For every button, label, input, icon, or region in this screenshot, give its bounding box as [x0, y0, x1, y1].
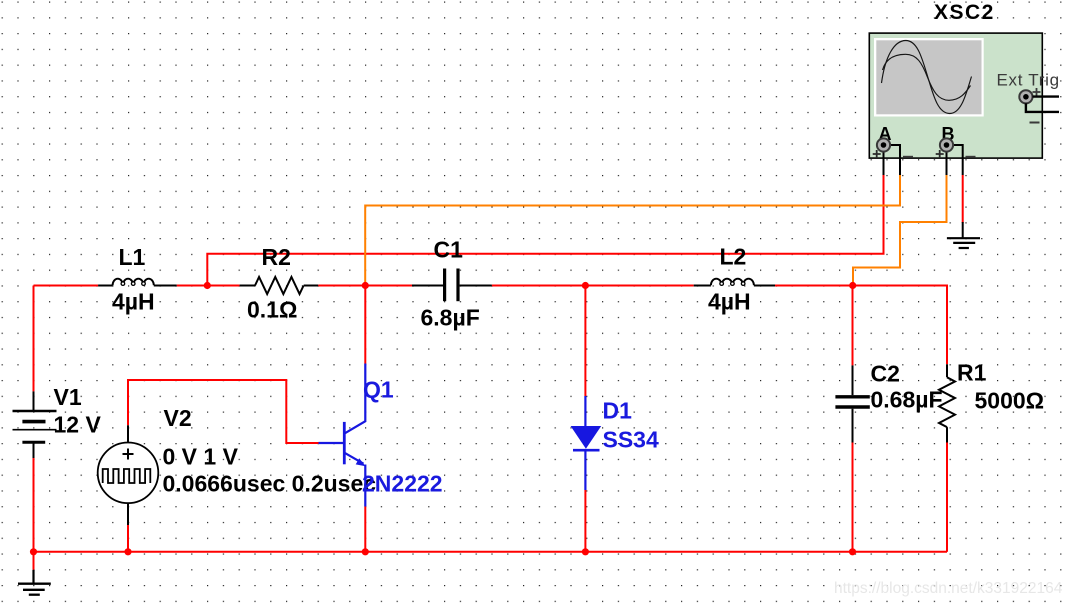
ground symbol (scope B minus)	[947, 222, 980, 248]
wire: bottom bus (ground net)	[34, 551, 948, 553]
wire: V2 bottom lead to bottom bus	[127, 525, 129, 552]
wire: L1 to R2	[177, 285, 240, 287]
wire: scope B minus stub	[951, 145, 963, 175]
capacitor C2	[835, 361, 942, 443]
diode D1 (SS34)	[571, 396, 659, 490]
svg-text:Q1: Q1	[363, 377, 394, 403]
wire: Q1 collector node	[364, 286, 366, 364]
junction: bottom bus at V2	[124, 548, 131, 555]
wire: C2 branch bottom	[852, 443, 854, 552]
svg-text:0 V 1 V: 0 V 1 V	[163, 444, 239, 470]
wire: C1 to L2	[492, 285, 694, 287]
wire: scope A terminal lead	[883, 146, 885, 175]
junction: output node L2 / C2	[849, 282, 856, 289]
wire: top bus left segment (V1+ to L1)	[34, 285, 99, 287]
svg-text:4µH: 4µH	[112, 289, 155, 315]
wire: left rail V1 bottom to bottom bus	[33, 458, 35, 552]
wire: ground stub bottom-left	[33, 552, 35, 570]
inductor L1	[98, 244, 177, 315]
scope trace waveform A	[882, 41, 972, 114]
pulse voltage source V2	[98, 405, 377, 525]
wire: V2 plus to Q1 base	[128, 380, 319, 443]
svg-text:C1: C1	[434, 237, 464, 263]
svg-text:0.68µF: 0.68µF	[871, 387, 943, 413]
junction: node after R2 / Q1 collector	[362, 282, 369, 289]
wire: right rail down to R1 top	[946, 285, 948, 365]
instrument body	[869, 33, 1042, 158]
svg-text:12 V: 12 V	[54, 412, 102, 438]
junction: bottom bus at D1	[582, 548, 589, 555]
terminal A	[873, 124, 913, 158]
resistor R2	[240, 244, 319, 323]
svg-text:2N2222: 2N2222	[362, 471, 443, 497]
svg-text:R1: R1	[957, 360, 987, 386]
transistor Q1 (NPN 2N2222)	[319, 364, 443, 507]
scope display screen	[874, 38, 984, 117]
svg-text:https://blog.csdn.net/k3319221: https://blog.csdn.net/k331922164	[834, 580, 1063, 597]
wire: left rail V1 top lead to bus	[33, 286, 35, 392]
svg-text:5000Ω: 5000Ω	[975, 388, 1045, 414]
svg-text:L2: L2	[720, 244, 747, 270]
wire: R1 bottom to bottom bus	[946, 443, 948, 552]
svg-text:0.1Ω: 0.1Ω	[247, 297, 297, 323]
oscilloscope XSC2	[869, 1, 1059, 175]
svg-text:6.8µF: 6.8µF	[421, 305, 480, 331]
svg-text:V1: V1	[54, 384, 82, 410]
wire: node after L1 up and across to scope channel A	[207, 175, 883, 286]
wire: D1 cathode to bottom bus	[584, 490, 586, 552]
svg-text:4µH: 4µH	[708, 289, 751, 315]
scope trace waveform B	[883, 54, 971, 100]
junction: bottom bus at Q1 emitter	[362, 548, 369, 555]
svg-text:SS34: SS34	[603, 427, 659, 453]
ground symbol (bottom left)	[18, 570, 51, 595]
resistor R1	[939, 360, 1044, 443]
wire: Q1 emitter to bottom bus	[364, 507, 366, 552]
terminal B	[936, 124, 976, 158]
svg-text:Ext Trig: Ext Trig	[997, 71, 1060, 90]
junction: bottom bus at V1	[30, 548, 37, 555]
wire: scope A plus stub	[888, 145, 900, 175]
wire: C2 branch top	[852, 286, 854, 366]
capacitor C1	[412, 237, 492, 331]
wire: R2 to C1	[318, 285, 412, 287]
svg-text:R2: R2	[262, 244, 291, 270]
battery V1	[13, 384, 102, 458]
svg-text:XSC2: XSC2	[934, 1, 995, 24]
wire: D1 anode branch	[584, 286, 586, 397]
inductor L2	[694, 244, 775, 315]
wire: scope B terminal lead	[946, 146, 948, 175]
junction: node C1-L2 / D1 anode	[582, 282, 589, 289]
svg-text:D1: D1	[603, 398, 633, 424]
svg-text:L1: L1	[119, 244, 146, 270]
junction: bottom bus at C2	[849, 548, 856, 555]
terminal Ext Trig	[1019, 88, 1059, 123]
wire: scope B minus stub to ground (red part)	[962, 175, 964, 223]
wire: scope A probe orange to node after R2	[365, 175, 900, 284]
svg-text:V2: V2	[164, 405, 192, 431]
wire: scope B probe orange to output node	[853, 175, 947, 284]
svg-text:C2: C2	[871, 361, 900, 387]
junction: node after L1 / scope A tap	[204, 282, 211, 289]
wire: L2 to top-right corner	[775, 285, 947, 287]
svg-text:0.0666usec 0.2usec: 0.0666usec 0.2usec	[163, 471, 377, 497]
